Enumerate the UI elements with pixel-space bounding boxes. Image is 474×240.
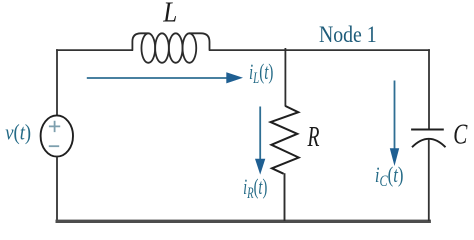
resistor R bbox=[271, 106, 299, 174]
wire right vertical upper segment bbox=[428, 49, 430, 129]
wire top horizontal right segment bbox=[209, 49, 430, 51]
capacitor C bbox=[411, 130, 445, 148]
wire bottom horizontal bbox=[56, 220, 431, 223]
wire right vertical lower segment bbox=[428, 139, 430, 221]
wire left vertical lower segment bbox=[56, 156, 58, 221]
current arrow iR bbox=[255, 107, 265, 175]
wire resistor top stub bbox=[284, 48, 286, 107]
wire top horizontal left segment bbox=[56, 49, 133, 51]
inductor L bbox=[132, 33, 209, 63]
svg-text:L: L bbox=[162, 0, 177, 28]
svg-text:C: C bbox=[453, 120, 467, 150]
wire resistor bottom stub bbox=[284, 173, 286, 221]
svg-text:iR(t): iR(t) bbox=[243, 175, 267, 201]
wire left vertical upper segment bbox=[56, 49, 58, 116]
svg-text:iC(t): iC(t) bbox=[375, 164, 404, 191]
current arrow iC bbox=[390, 81, 399, 167]
svg-text:v(t): v(t) bbox=[5, 121, 31, 145]
current arrow iL bbox=[87, 72, 243, 83]
svg-text:Node 1: Node 1 bbox=[319, 21, 377, 47]
voltage source V1 bbox=[41, 115, 73, 156]
svg-text:R: R bbox=[307, 122, 320, 153]
svg-text:iL(t): iL(t) bbox=[249, 60, 273, 86]
